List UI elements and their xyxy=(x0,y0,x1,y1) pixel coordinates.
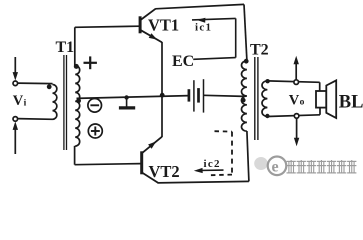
svg-text:i: i xyxy=(24,98,27,108)
svg-text:T2: T2 xyxy=(250,42,269,59)
svg-text:V: V xyxy=(13,93,24,109)
svg-text:e: e xyxy=(272,159,279,176)
svg-text:BL: BL xyxy=(339,93,363,113)
svg-text:EC: EC xyxy=(172,53,194,70)
svg-text:o: o xyxy=(300,98,305,108)
svg-text:T1: T1 xyxy=(56,39,75,56)
svg-text:V: V xyxy=(289,92,300,108)
svg-text:VT2: VT2 xyxy=(149,162,180,181)
svg-text:VT1: VT1 xyxy=(148,16,179,35)
svg-text:ic2: ic2 xyxy=(204,158,221,170)
svg-text:ic1: ic1 xyxy=(195,22,212,34)
